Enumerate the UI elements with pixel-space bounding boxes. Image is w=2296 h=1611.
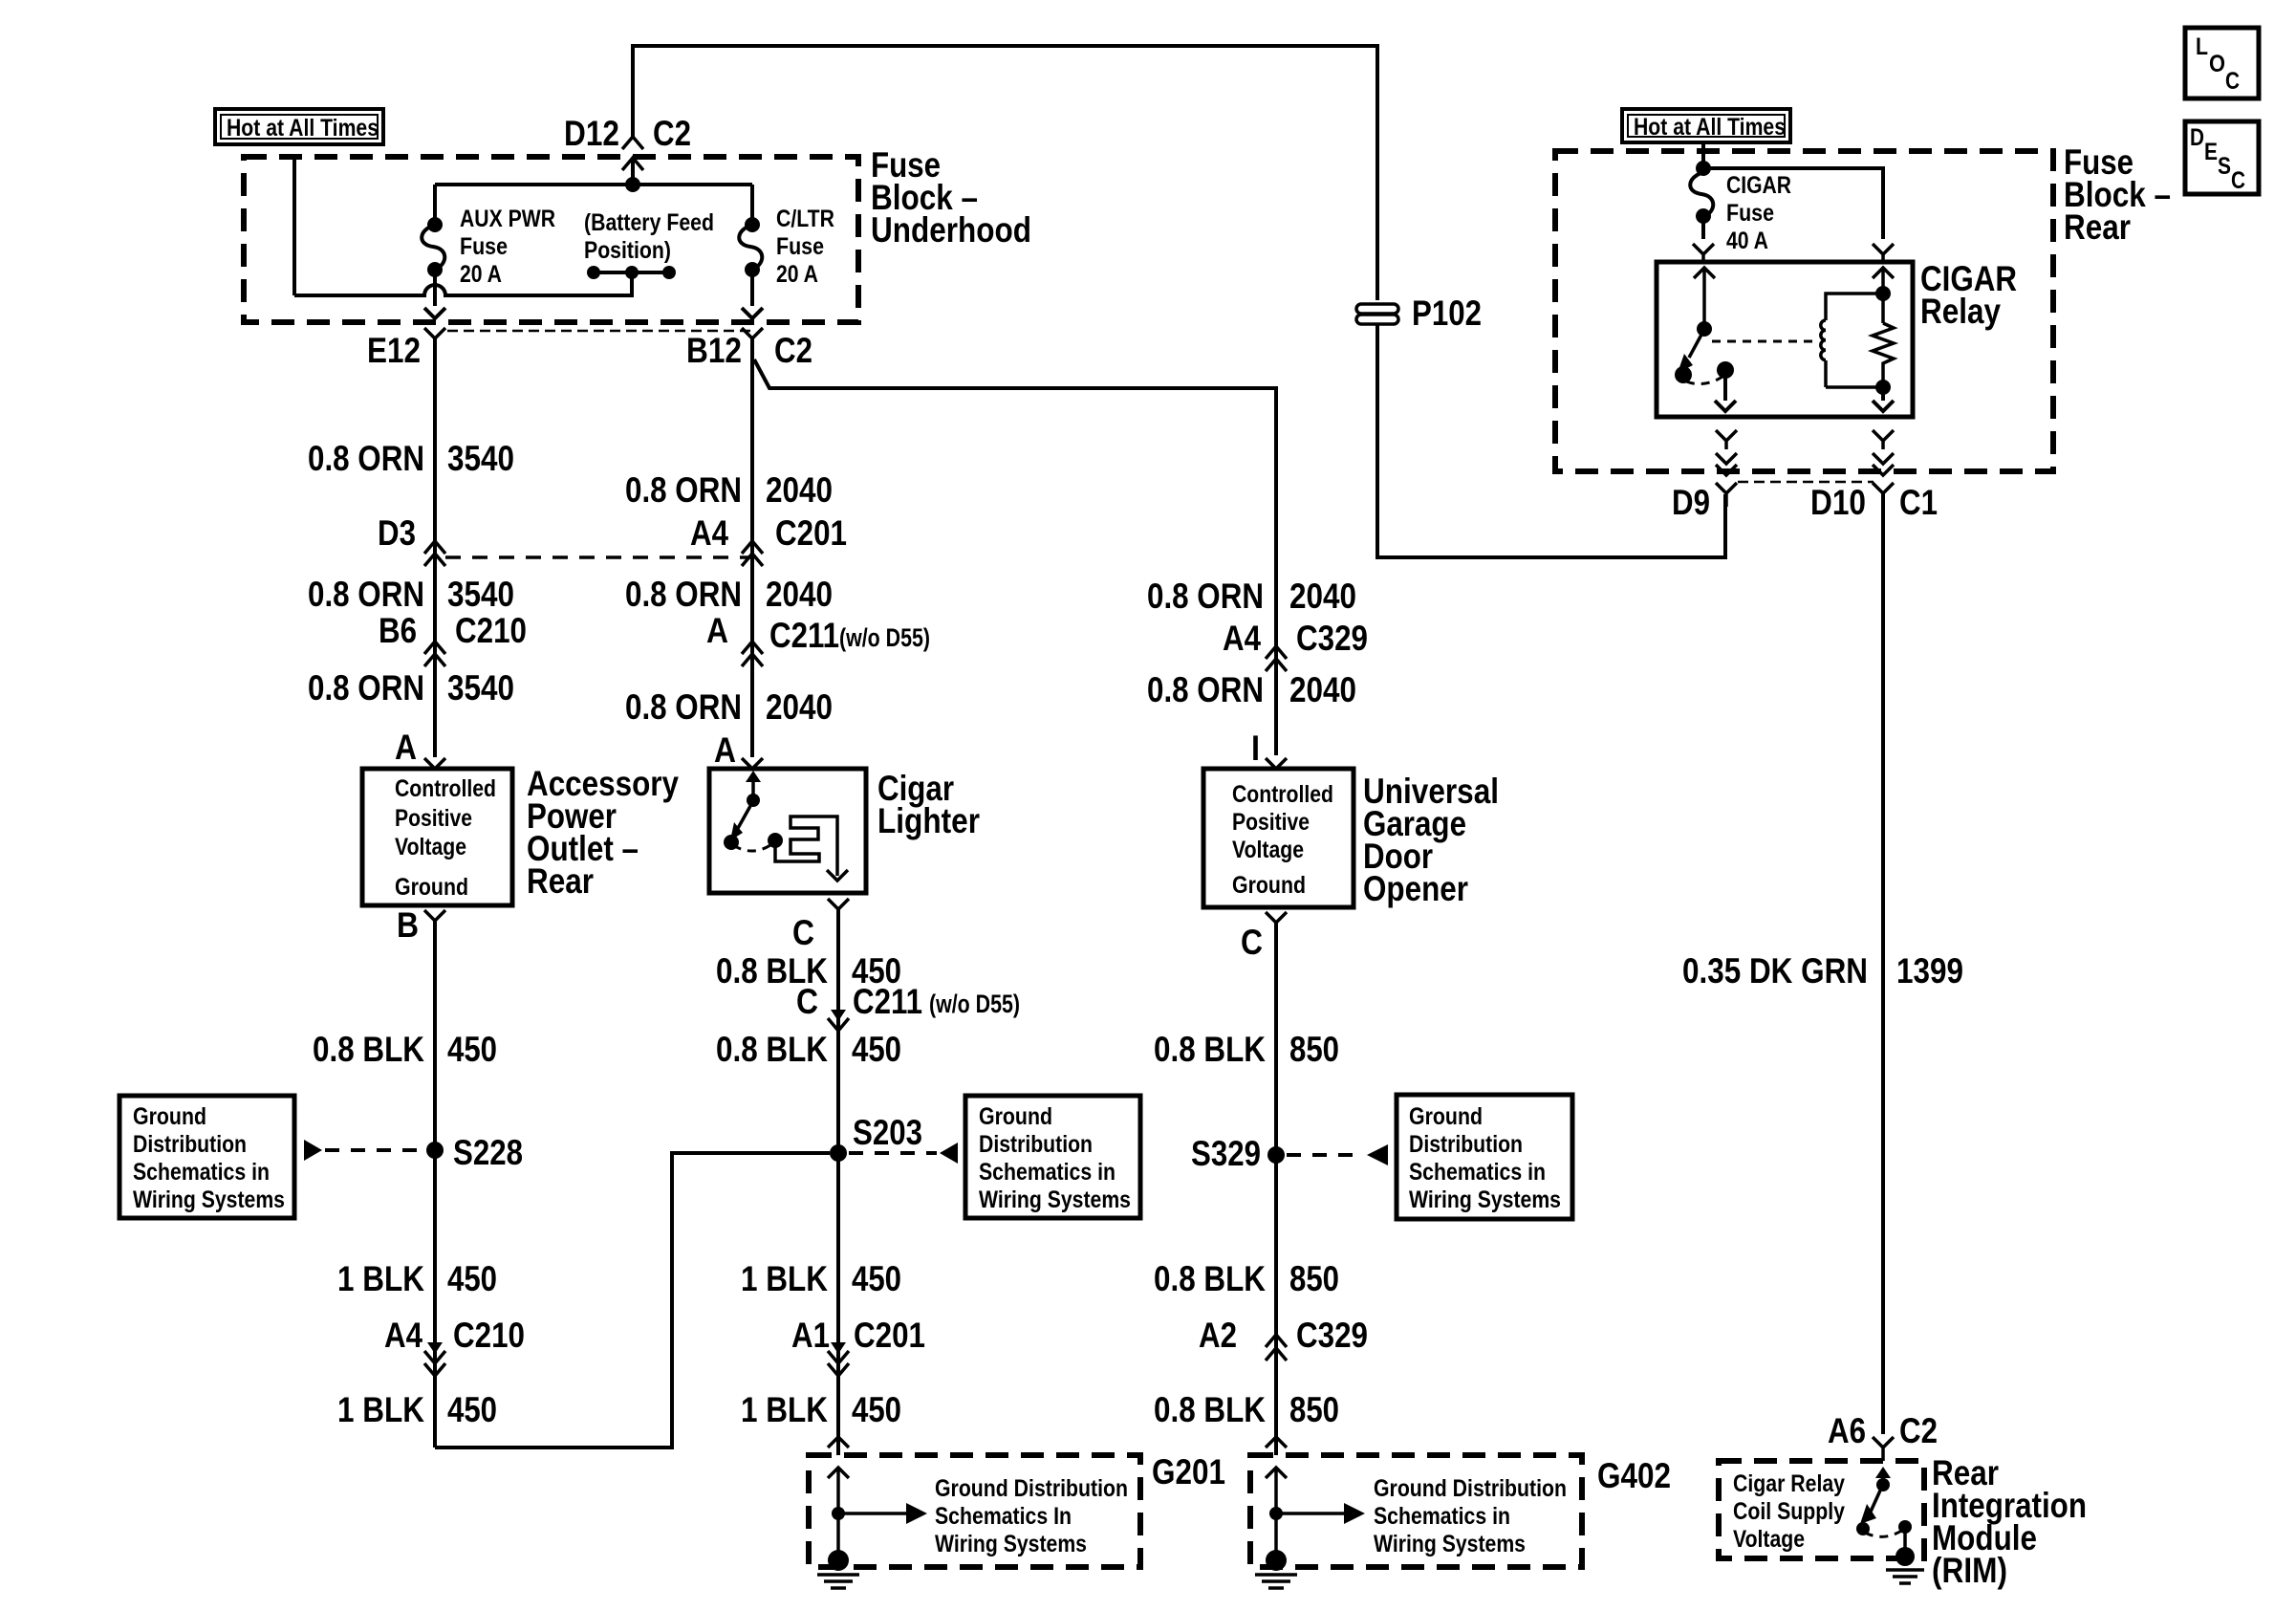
svg-text:C/LTR: C/LTR <box>776 206 834 232</box>
svg-text:450: 450 <box>447 1259 497 1298</box>
svg-text:0.8 BLK: 0.8 BLK <box>313 1030 424 1069</box>
svg-text:(Battery Feed: (Battery Feed <box>584 209 714 236</box>
svg-text:1 BLK: 1 BLK <box>741 1259 828 1298</box>
connector chevron into cigar lighter box <box>742 758 763 769</box>
connector C210 inline arrows (down) <box>424 1342 445 1376</box>
svg-text:S228: S228 <box>453 1133 523 1172</box>
svg-text:G201: G201 <box>1152 1452 1225 1491</box>
ground symbol G201 <box>817 1513 859 1588</box>
svg-text:Wiring Systems: Wiring Systems <box>935 1531 1087 1557</box>
node: coil bottom junction <box>1875 380 1891 395</box>
svg-text:C201: C201 <box>854 1316 925 1355</box>
svg-text:Ground: Ground <box>1409 1103 1483 1130</box>
svg-text:0.8 ORN: 0.8 ORN <box>308 439 424 478</box>
component box: universal garage door opener <box>1203 769 1354 907</box>
connector line C2 dashed between E12 and B12 <box>447 330 752 333</box>
svg-text:CIGAR: CIGAR <box>1726 172 1791 199</box>
svg-text:2040: 2040 <box>766 687 833 727</box>
svg-text:A4: A4 <box>384 1316 422 1355</box>
svg-text:A: A <box>395 728 417 767</box>
wire: relay coil output to D10 <box>1873 387 1894 411</box>
svg-text:Distribution: Distribution <box>133 1131 247 1158</box>
wire: underhood internal horizontal with hop over AUX fuse wire <box>294 274 632 295</box>
svg-text:A4: A4 <box>690 513 728 553</box>
svg-text:850: 850 <box>1289 1259 1339 1298</box>
svg-text:C329: C329 <box>1296 1316 1368 1355</box>
svg-text:S329: S329 <box>1191 1134 1261 1173</box>
svg-text:0.8 BLK: 0.8 BLK <box>1154 1030 1266 1069</box>
svg-text:Ground: Ground <box>133 1103 206 1130</box>
svg-text:C211: C211 <box>769 616 839 655</box>
connector chevrons above G402 <box>1266 1437 1287 1448</box>
svg-text:A2: A2 <box>1199 1316 1237 1355</box>
svg-text:C2: C2 <box>653 114 691 153</box>
heating element in cigar lighter <box>775 816 837 876</box>
dashed reference line to S228 <box>325 1148 424 1152</box>
svg-text:Coil Supply: Coil Supply <box>1733 1498 1845 1525</box>
svg-text:B6: B6 <box>379 611 417 650</box>
svg-text:Ground Distribution: Ground Distribution <box>1374 1475 1567 1502</box>
wire: main battery feed top bus from D12 to P102 <box>633 46 1377 300</box>
connector chevron D12/C2 <box>622 137 643 149</box>
svg-text:AUX PWR: AUX PWR <box>460 206 555 232</box>
node S329 splice <box>1267 1146 1285 1164</box>
svg-text:D: D <box>2190 124 2204 151</box>
svg-text:450: 450 <box>852 1259 901 1298</box>
reference arrow at S228 <box>304 1140 322 1161</box>
svg-text:C329: C329 <box>1296 619 1368 658</box>
wire: C/LTR fuse top lead <box>750 185 754 225</box>
svg-text:Voltage: Voltage <box>395 834 466 860</box>
svg-text:C: C <box>1241 923 1263 962</box>
wire: branch to relay coil side <box>1703 168 1883 239</box>
ground reference dashed box G201 <box>809 1455 1140 1567</box>
svg-text:Wiring Systems: Wiring Systems <box>1374 1531 1526 1557</box>
svg-text:Schematics In: Schematics In <box>935 1503 1072 1530</box>
svg-text:A: A <box>706 611 728 650</box>
svg-text:Positive: Positive <box>1232 809 1310 836</box>
arrow up inside G201 <box>828 1468 849 1513</box>
svg-text:Rear: Rear <box>2064 207 2131 247</box>
wire: AUX PWR fuse top lead <box>433 185 437 225</box>
svg-text:0.8 ORN: 0.8 ORN <box>1147 577 1264 616</box>
connector line C1 dashed between D9 and D10 <box>1738 481 1874 484</box>
svg-text:D9: D9 <box>1672 483 1710 522</box>
component box: cigar relay <box>1657 262 1913 417</box>
svg-text:C: C <box>2225 68 2240 95</box>
svg-text:Underhood: Underhood <box>871 210 1031 250</box>
wire: AUX fuse output with arrow to E12 <box>424 270 445 318</box>
relay coil winding <box>1821 294 1883 387</box>
svg-text:C: C <box>792 913 814 952</box>
svg-text:0.8 ORN: 0.8 ORN <box>625 575 742 614</box>
svg-text:D10: D10 <box>1810 483 1866 522</box>
module dashed box: RIM <box>1719 1461 1924 1558</box>
wire: B12 branch to garage door opener column <box>754 359 1276 755</box>
connector chevrons above G201 <box>828 1437 849 1448</box>
wire: hot feed vertical inside underhood block <box>292 157 296 295</box>
relay switch (left side) <box>1675 268 1734 384</box>
node: bus junction at D12 feed <box>625 177 640 192</box>
svg-text:C: C <box>2231 167 2245 194</box>
connector C201 inline arrow (down) <box>828 1342 849 1376</box>
svg-text:(w/o D55): (w/o D55) <box>929 990 1020 1018</box>
svg-text:C2: C2 <box>774 331 812 370</box>
svg-text:Controlled: Controlled <box>1232 781 1333 808</box>
connector chevron D9 <box>1716 483 1737 507</box>
svg-text:Ground Distribution: Ground Distribution <box>935 1475 1128 1502</box>
wire: B12 feed down to cigar lighter <box>750 338 754 757</box>
svg-text:Schematics in: Schematics in <box>133 1159 270 1186</box>
svg-text:850: 850 <box>1289 1390 1339 1429</box>
fuse block underhood dashed box <box>244 157 858 322</box>
svg-text:0.8 BLK: 0.8 BLK <box>1154 1259 1266 1298</box>
svg-text:450: 450 <box>447 1030 497 1069</box>
arrow: ground distribution right (G201) <box>838 1503 927 1524</box>
svg-text:20 A: 20 A <box>776 261 818 288</box>
connector chevron into relay (left) <box>1693 244 1714 262</box>
svg-text:Positive: Positive <box>395 805 472 832</box>
node S203 splice <box>830 1144 847 1162</box>
connector C201 dashed line <box>445 555 752 559</box>
connector chevron B12 <box>742 328 763 356</box>
svg-text:0.8 ORN: 0.8 ORN <box>1147 670 1264 709</box>
svg-text:A4: A4 <box>1223 619 1261 658</box>
svg-text:2040: 2040 <box>1289 670 1356 709</box>
svg-text:Rear: Rear <box>527 861 594 901</box>
svg-text:C: C <box>796 982 818 1021</box>
connector C211 inline chevrons <box>742 642 763 666</box>
reference box: ground distribution (S203) <box>965 1096 1140 1218</box>
svg-text:0.8 ORN: 0.8 ORN <box>308 575 424 614</box>
connector C210 inline chevrons <box>424 642 445 666</box>
svg-text:D12: D12 <box>564 114 619 153</box>
wire: hot feed into cigar fuse <box>1701 142 1705 168</box>
connector chevron E12 <box>424 328 445 356</box>
svg-text:C2: C2 <box>1899 1411 1938 1450</box>
svg-text:3540: 3540 <box>447 575 514 614</box>
svg-text:Schematics in: Schematics in <box>1374 1503 1510 1530</box>
svg-text:0.8 ORN: 0.8 ORN <box>625 470 742 510</box>
svg-text:Voltage: Voltage <box>1232 837 1304 863</box>
svg-text:40 A: 40 A <box>1726 228 1768 254</box>
svg-text:20 A: 20 A <box>460 261 502 288</box>
connector chevron into outlet box <box>424 758 445 769</box>
fuse CIGAR 40A <box>1690 161 1713 239</box>
svg-text:Cigar Relay: Cigar Relay <box>1733 1470 1845 1497</box>
svg-text:Opener: Opener <box>1363 869 1468 908</box>
fuse C/LTR 20A <box>739 217 762 277</box>
dashed reference line from S203 <box>849 1151 937 1155</box>
svg-text:0.8 ORN: 0.8 ORN <box>625 687 742 727</box>
svg-text:Ground: Ground <box>395 874 468 901</box>
svg-text:E12: E12 <box>367 331 421 370</box>
svg-text:E: E <box>2204 139 2218 165</box>
svg-text:Hot at All Times: Hot at All Times <box>227 115 379 142</box>
component box: cigar lighter <box>709 769 866 893</box>
svg-text:(RIM): (RIM) <box>1932 1551 2007 1590</box>
connector chevron D10/C1 <box>1873 483 1894 507</box>
svg-text:L: L <box>2196 33 2208 60</box>
svg-text:Fuse: Fuse <box>1726 200 1774 227</box>
svg-text:G402: G402 <box>1597 1456 1671 1495</box>
wire: C/LTR fuse output with arrow to B12 <box>742 270 763 318</box>
relay actuation dashed line <box>1712 340 1813 343</box>
svg-text:3540: 3540 <box>447 439 514 478</box>
svg-text:Schematics in: Schematics in <box>979 1159 1116 1186</box>
connector chevron below outlet box <box>424 910 445 937</box>
fuse block rear dashed box <box>1555 151 2053 471</box>
connector chevron A6/C2 <box>1873 1437 1894 1461</box>
svg-text:D3: D3 <box>378 513 416 553</box>
wire: D12 stub into fuse bus <box>631 161 635 185</box>
svg-text:1 BLK: 1 BLK <box>337 1390 424 1429</box>
svg-text:S203: S203 <box>853 1113 922 1152</box>
svg-text:Hot at All Times: Hot at All Times <box>1634 114 1786 141</box>
svg-text:C210: C210 <box>453 1316 525 1355</box>
connector C329 inline chevrons <box>1266 646 1287 671</box>
svg-text:1 BLK: 1 BLK <box>741 1390 828 1429</box>
dashed reference line from S329 <box>1287 1153 1361 1157</box>
svg-text:Schematics in: Schematics in <box>1409 1159 1546 1186</box>
relay coil side vertical <box>1873 268 1894 323</box>
connector C201 inline chevrons <box>742 541 763 566</box>
svg-text:Fuse: Fuse <box>776 233 824 260</box>
connector chevron into garage door opener box <box>1266 758 1287 769</box>
svg-text:2040: 2040 <box>766 470 833 510</box>
connector chevrons below relay (D9 side) <box>1716 430 1737 475</box>
svg-text:B12: B12 <box>686 331 742 370</box>
reference arrow at S329 <box>1367 1144 1388 1165</box>
connector C329 inline chevrons (up) <box>1266 1335 1287 1361</box>
switch inside RIM <box>1856 1467 1912 1536</box>
arrow: heater output down <box>827 870 848 881</box>
node: coil top junction <box>1875 286 1891 301</box>
svg-text:(w/o D55): (w/o D55) <box>839 623 930 652</box>
fuse AUX PWR 20A <box>422 217 444 277</box>
battery feed position bar <box>587 266 676 295</box>
wire: cigar lighter ground lead down to S203 <box>836 909 840 1153</box>
reference box: ground distribution (S329) <box>1397 1095 1572 1219</box>
svg-text:450: 450 <box>852 1390 901 1429</box>
arrow: ground distribution right (G402) <box>1276 1503 1365 1524</box>
svg-text:B: B <box>397 905 419 945</box>
connector C211 inline arrow (down) <box>828 1010 849 1031</box>
svg-text:2040: 2040 <box>766 575 833 614</box>
svg-text:Fuse: Fuse <box>460 233 508 260</box>
wire: 0.35 DK GRN from relay D10 to RIM <box>1881 493 1885 1434</box>
svg-text:Wiring Systems: Wiring Systems <box>979 1186 1131 1213</box>
svg-text:I: I <box>1251 729 1260 768</box>
reference arrow at S203 <box>940 1143 958 1164</box>
wire: outlet ground lead down to S228 <box>433 919 437 1448</box>
wire: P102 lower feed down to corner toward D9 <box>1377 324 1725 557</box>
svg-text:A1: A1 <box>791 1316 830 1355</box>
wire: underhood fuse bus <box>435 183 752 186</box>
arrow up inside G402 <box>1266 1468 1287 1513</box>
connector chevron into relay (right) <box>1873 244 1894 262</box>
svg-text:C1: C1 <box>1899 483 1938 522</box>
svg-text:Ground: Ground <box>1232 872 1306 899</box>
svg-text:O: O <box>2209 51 2225 77</box>
svg-text:A6: A6 <box>1828 1411 1866 1450</box>
relay internal resistor <box>1873 323 1894 387</box>
svg-text:Distribution: Distribution <box>979 1131 1093 1158</box>
wire: garage door opener ground lead down to G402 <box>1274 923 1278 1455</box>
svg-text:850: 850 <box>1289 1030 1339 1069</box>
node S228 splice <box>426 1142 444 1159</box>
svg-text:0.35 DK GRN: 0.35 DK GRN <box>1682 951 1868 991</box>
svg-text:S: S <box>2218 153 2231 180</box>
wire: down to G201 <box>836 1153 840 1455</box>
svg-text:Distribution: Distribution <box>1409 1131 1523 1158</box>
connector chevron below cigar box (pin C) <box>828 899 849 925</box>
svg-text:A: A <box>714 730 736 770</box>
svg-text:450: 450 <box>447 1390 497 1429</box>
switch arm in cigar lighter <box>724 771 783 851</box>
wire: relay switched output to D9 <box>1715 370 1736 411</box>
connector chevrons below relay (D10 side) <box>1873 430 1894 475</box>
ground reference dashed box G402 <box>1250 1455 1582 1567</box>
svg-text:0.8 BLK: 0.8 BLK <box>1154 1390 1266 1429</box>
svg-text:P102: P102 <box>1412 294 1482 333</box>
connector C201 inline chevrons at D3 <box>424 541 445 566</box>
label box: Hot at All Times (left) <box>215 109 383 144</box>
svg-text:C201: C201 <box>775 513 847 553</box>
svg-text:Controlled: Controlled <box>395 775 496 802</box>
node: G402 junction <box>1269 1507 1283 1520</box>
svg-text:Wiring Systems: Wiring Systems <box>133 1186 285 1213</box>
ground symbol G402 <box>1255 1513 1297 1588</box>
svg-text:0.8 BLK: 0.8 BLK <box>716 1030 828 1069</box>
wire: E12 to accessory power outlet <box>433 338 437 757</box>
svg-text:Wiring Systems: Wiring Systems <box>1409 1186 1561 1213</box>
svg-text:Position): Position) <box>584 237 671 264</box>
connector chevron below garage door opener box <box>1266 912 1287 939</box>
wire: tie from outlet ground over to S203 <box>435 1153 830 1448</box>
grommet P102 <box>1356 304 1398 324</box>
svg-text:C210: C210 <box>455 611 527 650</box>
svg-text:Voltage: Voltage <box>1733 1526 1805 1553</box>
svg-text:1 BLK: 1 BLK <box>337 1259 424 1298</box>
component box: accessory power outlet <box>362 769 512 905</box>
svg-text:1399: 1399 <box>1896 951 1963 991</box>
svg-text:Relay: Relay <box>1920 292 2001 331</box>
svg-text:3540: 3540 <box>447 668 514 708</box>
svg-text:450: 450 <box>852 1030 901 1069</box>
reference box LOC <box>2185 28 2259 98</box>
svg-text:Ground: Ground <box>979 1103 1052 1130</box>
ground symbol in RIM <box>1886 1527 1924 1583</box>
reference box DESC <box>2185 121 2259 194</box>
label box: Hot at All Times (right) <box>1622 109 1790 142</box>
connector arrow up into fuse block at D12 <box>622 158 643 185</box>
svg-text:2040: 2040 <box>1289 577 1356 616</box>
svg-text:C211: C211 <box>853 982 922 1021</box>
svg-text:Lighter: Lighter <box>877 801 980 840</box>
svg-text:0.8 ORN: 0.8 ORN <box>308 668 424 708</box>
reference box: ground distribution (S228) <box>119 1096 294 1218</box>
node: G201 junction <box>832 1507 845 1520</box>
